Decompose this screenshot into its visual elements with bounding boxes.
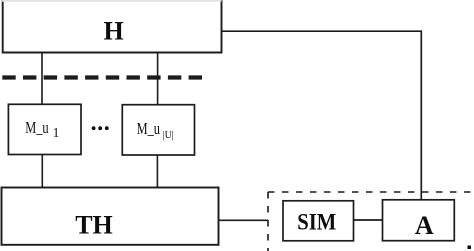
svg-text:TH: TH: [75, 211, 113, 240]
svg-text:1: 1: [53, 125, 60, 140]
svg-text:M_u: M_u: [137, 120, 161, 138]
svg-text:A: A: [415, 211, 434, 240]
svg-text:|U|: |U|: [163, 130, 174, 142]
svg-text:M_u: M_u: [25, 120, 49, 138]
svg-text:H: H: [103, 16, 123, 45]
svg-text:SIM: SIM: [297, 210, 336, 235]
